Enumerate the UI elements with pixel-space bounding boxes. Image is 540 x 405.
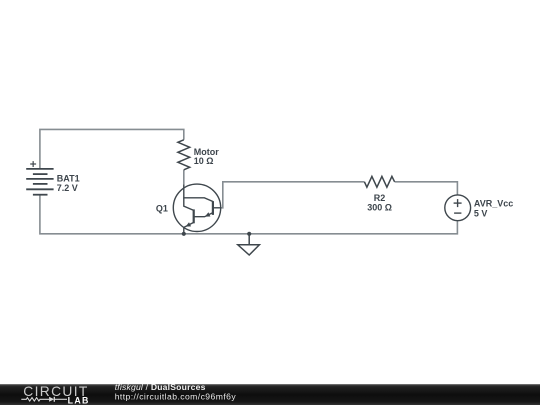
logo diode (49, 397, 54, 402)
resistor R2 (364, 176, 394, 187)
svg-text:300 Ω: 300 Ω (367, 203, 392, 213)
logo squiggle wire (21, 398, 49, 401)
svg-text:AVR_Vcc: AVR_Vcc (474, 199, 513, 209)
Q1 emitter arrow (outer) (186, 222, 192, 226)
junction dot (emitter/rail) (182, 232, 186, 236)
svg-text:Q1: Q1 (156, 203, 168, 213)
wire (40, 129, 184, 169)
resistor Motor (178, 140, 190, 170)
battery plus marker (30, 161, 36, 167)
voltage source AVR_Vcc (445, 195, 471, 221)
wire (40, 195, 458, 234)
footer bar (0, 384, 540, 405)
transistor Q1 (darlington) (173, 184, 220, 234)
svg-text:BAT1: BAT1 (57, 173, 80, 183)
ground (238, 234, 260, 255)
svg-text:7.2 V: 7.2 V (57, 183, 78, 193)
wire (395, 182, 458, 195)
svg-text:R2: R2 (374, 193, 386, 203)
wire (221, 182, 365, 208)
svg-text:5 V: 5 V (474, 208, 488, 218)
wire (183, 170, 185, 184)
svg-text:http://circuitlab.com/c96mf6y: http://circuitlab.com/c96mf6y (115, 391, 237, 401)
battery BAT1 (26, 169, 53, 195)
svg-text:10 Ω: 10 Ω (194, 156, 214, 166)
svg-text:LAB: LAB (68, 396, 90, 405)
Q1 emitter arrow (inner) (205, 212, 211, 216)
svg-text:tfiskgul / DualSources: tfiskgul / DualSources (115, 382, 206, 392)
junction dot (ground/rail) (247, 232, 251, 236)
